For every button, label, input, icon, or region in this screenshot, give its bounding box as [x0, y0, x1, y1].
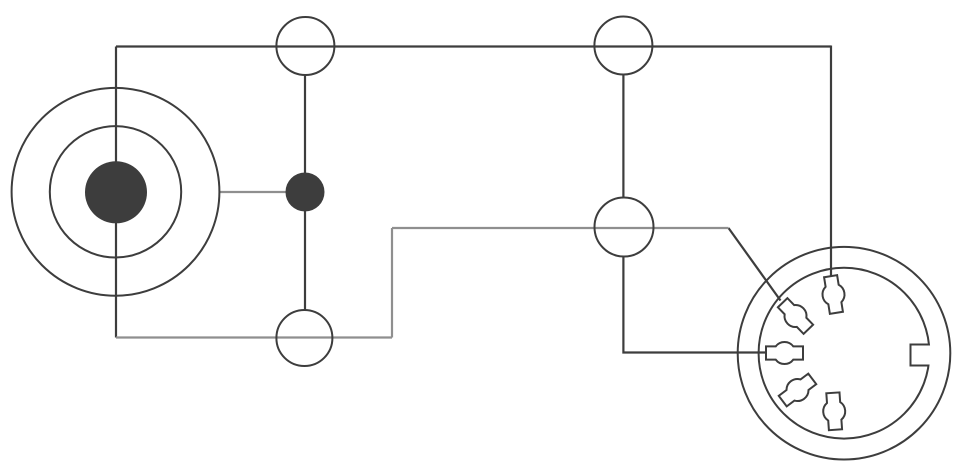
DIN keyway notch outline	[911, 345, 930, 366]
wire: from terminal D down then right to DIN left pin	[623, 256, 766, 353]
DIN pin 1 (top)	[820, 275, 848, 315]
DIN pin 2 (upper left)	[775, 295, 817, 337]
wire: diagonal from bend into DIN upper-left pin	[729, 228, 781, 301]
terminal A (top left circle)	[276, 17, 334, 75]
RCA plug outer shell circle	[12, 88, 220, 296]
DIN pin 4 (lower left)	[776, 370, 819, 410]
terminal C (bottom circle)	[276, 310, 332, 366]
DIN pin 3 (left)	[766, 342, 803, 364]
wire: gray horizontal through terminal D to diagonal bend	[392, 227, 729, 229]
DIN keyway notch mask	[918, 346, 936, 365]
wire: left vertical through RCA plug	[115, 47, 117, 338]
terminal D (middle right circle)	[595, 198, 654, 257]
wire: vertical from terminal B down to terminal D	[622, 75, 624, 199]
wire: top bus from left corner to right corner	[116, 45, 831, 47]
wire: gray stub from RCA centre to junction dot	[219, 191, 306, 193]
terminal B (top right circle)	[594, 17, 652, 75]
DIN connector inner circle	[759, 268, 930, 439]
RCA plug centre contact (filled)	[85, 161, 147, 223]
wire: right vertical down to DIN top pin	[830, 46, 832, 279]
junction dot	[286, 173, 325, 212]
wire: gray bottom bus from left corner through terminal C	[116, 336, 392, 338]
wire: gray riser up from bottom bus	[391, 228, 393, 338]
DIN connector outer circle	[738, 247, 951, 460]
RCA plug inner ring circle	[50, 126, 181, 257]
wire: vertical from terminal A down through junction to terminal C	[304, 75, 306, 311]
DIN pin 5 (bottom)	[822, 392, 847, 430]
